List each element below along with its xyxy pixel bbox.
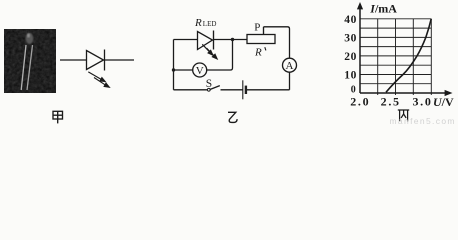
wire: voltmeter to riser up to junction	[207, 40, 233, 71]
LED R_LED diode triangle	[198, 32, 213, 50]
wire (left lead)	[60, 59, 87, 61]
svg-text:A: A	[286, 60, 294, 72]
label jia (甲)	[53, 111, 63, 123]
wire (right lead)	[105, 59, 135, 61]
battery cell: negative short plate	[245, 86, 247, 94]
svg-text:P: P	[254, 22, 260, 34]
wire: wiper to ammeter (top right loop)	[264, 27, 290, 58]
cathode bar	[213, 31, 215, 50]
cathode bar	[104, 50, 106, 71]
svg-text:R: R	[194, 17, 202, 29]
svg-text:40: 40	[344, 14, 357, 26]
svg-text:20: 20	[344, 51, 357, 63]
U axis (horizontal)	[360, 92, 446, 94]
I-U characteristic curve	[386, 19, 431, 93]
wire: switch to bottom left corner	[174, 89, 208, 91]
wire top-left: left rail corner to LED anode	[174, 39, 198, 41]
grid horizontal lines	[360, 19, 431, 84]
node: junction of voltmeter riser and main wire	[231, 38, 234, 41]
ammeter A	[283, 58, 297, 72]
svg-text:U/V: U/V	[433, 95, 454, 109]
svg-text:manfen5.com: manfen5.com	[390, 116, 456, 125]
wire: left rail	[173, 40, 175, 90]
svg-text:V: V	[196, 65, 204, 77]
LED photograph (figure jia)	[4, 29, 56, 93]
svg-text:3.0: 3.0	[412, 94, 432, 108]
label yi (乙)	[228, 112, 237, 122]
wire: left rail to voltmeter	[174, 69, 193, 71]
U axis arrowhead	[445, 90, 453, 96]
switch S pivot	[207, 88, 210, 91]
svg-text:I/mA: I/mA	[369, 1, 397, 15]
diode triangle	[87, 51, 104, 70]
emission arrow 1 of R_LED	[202, 44, 213, 55]
svg-text:R: R	[254, 46, 262, 58]
battery cell: positive long plate	[242, 80, 244, 99]
wire: cathode to junction to rheostat	[214, 39, 248, 41]
svg-text:10: 10	[344, 70, 357, 82]
LED symbol (standalone)	[60, 50, 134, 71]
switch S lever	[210, 86, 220, 90]
voltmeter V	[193, 63, 207, 77]
svg-text:LED: LED	[203, 20, 217, 28]
svg-text:30: 30	[344, 33, 357, 45]
I axis (vertical)	[359, 8, 361, 94]
label bing (丙)	[398, 110, 409, 121]
svg-text:S: S	[206, 78, 212, 90]
wire: ammeter to bottom right corner	[289, 72, 291, 90]
svg-text:2.5: 2.5	[381, 94, 401, 108]
node: junction of voltmeter branch on left rail	[172, 68, 175, 71]
emission arrow 2 of R_LED	[207, 48, 218, 59]
wiper of rheostat	[263, 27, 265, 35]
svg-text:2.0: 2.0	[350, 94, 370, 108]
grid vertical lines	[378, 19, 432, 95]
rheostat R' body	[247, 35, 275, 44]
LED emission arrow 1	[88, 72, 105, 82]
I axis arrowhead	[357, 2, 363, 9]
LED emission arrow 2	[94, 78, 109, 88]
wire: bottom right segment to battery	[247, 89, 290, 91]
wire: battery to switch	[221, 89, 243, 91]
